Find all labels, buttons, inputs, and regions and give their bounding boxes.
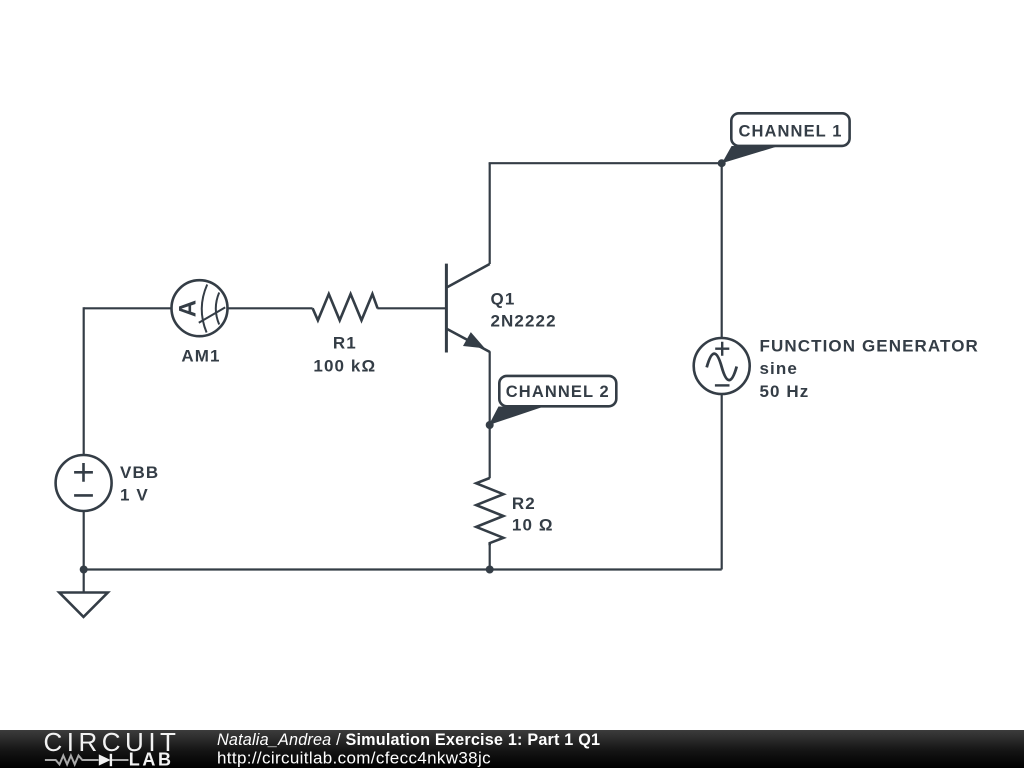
svg-text:1 V: 1 V (120, 485, 149, 504)
function generator V1 (694, 338, 750, 394)
label R2 value (512, 494, 554, 535)
voltage source VBB (56, 455, 112, 511)
svg-text:FUNCTION GENERATOR: FUNCTION GENERATOR (760, 337, 979, 356)
wire emitter vertical to R2 (489, 351, 491, 478)
svg-text:VBB: VBB (120, 463, 159, 482)
label VBB value (120, 463, 159, 504)
node junction bottom left (80, 566, 88, 574)
wire top horizontal (489, 162, 722, 164)
callout CHANNEL 2 (489, 376, 617, 425)
ground (59, 593, 108, 617)
svg-text:2N2222: 2N2222 (491, 311, 557, 330)
ammeter AM1 (172, 280, 228, 336)
resistor R2 (476, 478, 503, 545)
svg-text:50 Hz: 50 Hz (760, 382, 810, 401)
svg-text:CHANNEL 1: CHANNEL 1 (738, 122, 842, 140)
svg-text:LAB: LAB (129, 750, 174, 768)
svg-text:AM1: AM1 (181, 347, 220, 366)
resistor R1 (313, 294, 378, 320)
svg-text:100 kΩ: 100 kΩ (313, 356, 376, 375)
node junction top right (718, 159, 726, 167)
svg-text:Natalia_Andrea / Simulation Ex: Natalia_Andrea / Simulation Exercise 1: … (217, 731, 600, 749)
svg-text:R1: R1 (333, 334, 357, 353)
CircuitLab logo resistor-diode symbol (45, 754, 129, 766)
node junction bottom R2 (486, 566, 494, 574)
svg-text:CHANNEL 2: CHANNEL 2 (506, 383, 610, 401)
wire left horizontal (VBB to AM1) (84, 307, 171, 309)
wire bottom horizontal (84, 568, 722, 570)
svg-text:R2: R2 (512, 494, 536, 513)
label FUNCTION GENERATOR value (760, 337, 979, 401)
node junction emitter (486, 421, 494, 429)
wire left vertical (to VBB top) (83, 307, 85, 454)
wire function generator bottom (721, 395, 723, 570)
wire function generator top (721, 163, 723, 337)
transistor Q1 (446, 264, 489, 353)
label Q1 value (491, 289, 557, 330)
svg-text:Q1: Q1 (491, 289, 516, 308)
label R1 value (313, 334, 376, 376)
footer bar (0, 730, 1024, 768)
callout CHANNEL 1 (722, 113, 850, 163)
wire R2 bottom (489, 545, 491, 570)
svg-text:sine: sine (760, 359, 798, 378)
svg-text:10 Ω: 10 Ω (512, 515, 554, 534)
wire collector vertical (489, 163, 491, 264)
wire VBB bottom to ground (83, 512, 85, 593)
wire R1 to Q1 base (377, 307, 445, 309)
svg-text:A: A (175, 299, 202, 317)
wire AM1 to R1 (228, 307, 312, 309)
svg-text:http://circuitlab.com/cfecc4nk: http://circuitlab.com/cfecc4nkw38jc (217, 749, 491, 768)
